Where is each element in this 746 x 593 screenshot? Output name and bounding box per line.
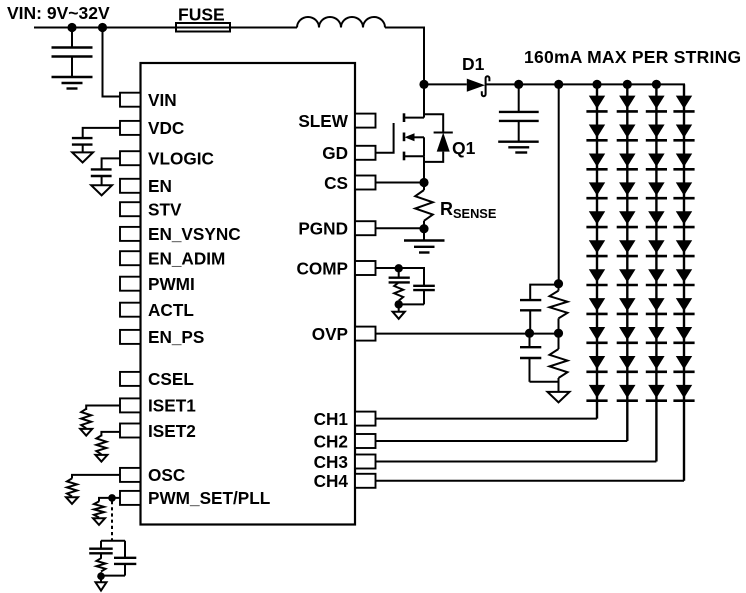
svg-text:CH1: CH1 bbox=[314, 409, 349, 429]
node OVP divider top bbox=[554, 279, 563, 288]
svg-text:ACTL: ACTL bbox=[148, 300, 194, 320]
pin STV (left) bbox=[120, 200, 182, 220]
svg-text:D1: D1 bbox=[462, 54, 485, 74]
svg-text:VIN: 9V~32V: VIN: 9V~32V bbox=[7, 3, 110, 23]
pin PGND (right) bbox=[298, 219, 375, 239]
wire CH1 return bbox=[376, 418, 598, 420]
node PLL ground junction bbox=[97, 572, 105, 580]
net label 160mA MAX PER STRING bbox=[524, 47, 741, 67]
fuse FUSE bbox=[176, 4, 230, 31]
pin COMP (right) bbox=[296, 258, 375, 278]
capacitor PLL parallel bbox=[114, 541, 136, 576]
capacitor input bulk bbox=[52, 28, 93, 77]
pin CH3 (right) bbox=[314, 452, 376, 472]
wire CS bbox=[376, 182, 425, 184]
svg-text:STV: STV bbox=[148, 200, 182, 220]
LED string 4 (CH4) bbox=[673, 84, 694, 480]
wire dashed PLL option bbox=[111, 501, 113, 541]
net label VIN: 9V~32V bbox=[7, 3, 110, 23]
capacitor VLOGIC bypass with wire bbox=[91, 158, 120, 185]
svg-text:ISET1: ISET1 bbox=[148, 396, 196, 416]
ground input (earth) bbox=[52, 77, 93, 89]
wire inductor to diode node bbox=[385, 28, 424, 81]
ground ISET2 (small triangle) bbox=[95, 455, 107, 462]
wire PLL filter bottom bbox=[101, 575, 125, 577]
resistor PLL series bbox=[97, 558, 106, 576]
svg-text:RSENSE: RSENSE bbox=[440, 199, 497, 221]
pin ACTL (left) bbox=[120, 300, 194, 320]
svg-text:VLOGIC: VLOGIC bbox=[148, 149, 214, 169]
resistor RSENSE bbox=[415, 183, 497, 229]
svg-text:Q1: Q1 bbox=[452, 138, 476, 158]
transistor Q1 N-MOSFET bbox=[404, 84, 476, 182]
pin VLOGIC (left) bbox=[120, 149, 214, 169]
pin EN_PS (left) bbox=[120, 327, 204, 347]
svg-text:OVP: OVP bbox=[312, 324, 348, 344]
svg-text:OSC: OSC bbox=[148, 465, 185, 485]
pin ISET2 (left) bbox=[120, 421, 196, 441]
node input junction 1 bbox=[67, 23, 76, 32]
node COMP junction bbox=[395, 264, 403, 272]
ground PWM_SET (small triangle) bbox=[93, 518, 105, 525]
ground COMP (triangle) bbox=[393, 304, 405, 318]
pin PWMI (left) bbox=[120, 274, 195, 294]
wire OVP pin bbox=[376, 333, 559, 335]
node PWM_SET junction bbox=[108, 494, 116, 502]
resistor OVP lower bbox=[550, 333, 568, 392]
wire PWM_SET/PLL bbox=[99, 498, 120, 502]
svg-text:SLEW: SLEW bbox=[298, 111, 348, 131]
pin EN_ADIM (left) bbox=[120, 249, 225, 269]
capacitor OVP lower bbox=[520, 333, 559, 382]
svg-text:EN: EN bbox=[148, 176, 172, 196]
pin CSEL (left) bbox=[120, 369, 194, 389]
ground PGND (earth) bbox=[404, 229, 445, 253]
capacitor output bulk bbox=[499, 84, 539, 141]
wire input rail bbox=[34, 27, 297, 29]
node boost switch junction bbox=[419, 80, 428, 89]
wire VIN pin feed bbox=[103, 28, 121, 97]
wire PGND bbox=[376, 227, 425, 229]
pin SLEW (right) bbox=[298, 111, 375, 131]
wire COMP pin bbox=[376, 268, 425, 285]
resistor ISET2 with wire bbox=[96, 432, 120, 454]
node PGND junction bbox=[419, 224, 428, 233]
svg-text:CH4: CH4 bbox=[314, 471, 349, 491]
ground PLL (small triangle) bbox=[96, 576, 107, 590]
svg-text:GD: GD bbox=[322, 143, 348, 163]
ground VDC (signal triangle) bbox=[72, 152, 93, 162]
pin EN_VSYNC (left) bbox=[120, 224, 241, 244]
ground OSC (small triangle) bbox=[66, 497, 78, 504]
capacitor VDC bypass with wire bbox=[72, 128, 120, 152]
pin ISET1 (left) bbox=[120, 396, 196, 416]
svg-text:COMP: COMP bbox=[296, 258, 348, 278]
node COMP ground junction bbox=[395, 300, 403, 308]
LED string 2 (CH2) bbox=[617, 84, 638, 441]
svg-text:PGND: PGND bbox=[298, 219, 348, 239]
node input junction 2 bbox=[98, 23, 107, 32]
pin CS (right) bbox=[324, 173, 375, 193]
diode D1 schottky bbox=[462, 54, 489, 96]
node string 3 junction bbox=[652, 80, 661, 89]
resistor ISET1 with wire bbox=[81, 406, 120, 429]
node output cap junction bbox=[514, 80, 523, 89]
svg-text:EN_ADIM: EN_ADIM bbox=[148, 249, 225, 269]
resistor OSC with wire bbox=[67, 475, 120, 497]
wire boost node to D1 bbox=[424, 83, 467, 85]
svg-text:PWMI: PWMI bbox=[148, 274, 195, 294]
wire CH4 return bbox=[376, 480, 685, 482]
node OVP mid left bbox=[525, 329, 534, 338]
capacitor COMP series bbox=[389, 268, 410, 282]
svg-text:ISET2: ISET2 bbox=[148, 421, 196, 441]
svg-text:160mA MAX PER STRING: 160mA MAX PER STRING bbox=[524, 47, 741, 67]
capacitor PLL series bbox=[89, 541, 113, 559]
LED string 3 (CH3) bbox=[646, 84, 667, 461]
pin VDC (left) bbox=[120, 118, 184, 138]
svg-text:VIN: VIN bbox=[148, 90, 177, 110]
node CS junction bbox=[419, 178, 428, 187]
LED string 1 (CH1) bbox=[586, 84, 607, 418]
pin CH2 (right) bbox=[314, 431, 376, 451]
pin VIN (left) bbox=[120, 90, 177, 110]
node OVP top junction bbox=[554, 80, 563, 89]
pin OVP (right) bbox=[312, 324, 376, 344]
resistor COMP series bbox=[394, 282, 403, 304]
wire output rail bbox=[486, 84, 684, 95]
pin CH1 (right) bbox=[314, 409, 376, 429]
wire rail to OVP divider bbox=[558, 84, 560, 283]
pin CH4 (right) bbox=[314, 471, 376, 491]
ground VLOGIC (signal triangle) bbox=[91, 185, 112, 195]
resistor PWM_SET bbox=[94, 501, 104, 517]
pin GD (right) bbox=[322, 143, 375, 163]
ground OVP (triangle) bbox=[548, 392, 570, 403]
capacitor COMP parallel bbox=[399, 286, 435, 305]
IC U1 LED driver bbox=[141, 63, 356, 525]
svg-text:EN_PS: EN_PS bbox=[148, 327, 204, 347]
wire PLL filter top bbox=[101, 540, 125, 542]
svg-text:EN_VSYNC: EN_VSYNC bbox=[148, 224, 241, 244]
inductor L1 bbox=[297, 17, 385, 28]
pin OSC (left) bbox=[120, 465, 185, 485]
pin PWM_SET/PLL (left) bbox=[120, 488, 270, 508]
svg-text:CH3: CH3 bbox=[314, 452, 348, 472]
wire CH2 return bbox=[376, 440, 628, 442]
svg-text:CH2: CH2 bbox=[314, 431, 348, 451]
wire CH3 return bbox=[376, 461, 657, 463]
svg-text:PWM_SET/PLL: PWM_SET/PLL bbox=[148, 488, 270, 508]
svg-text:CSEL: CSEL bbox=[148, 369, 194, 389]
wire GD to gate bbox=[376, 123, 394, 153]
svg-text:CS: CS bbox=[324, 173, 348, 193]
node string 2 junction bbox=[623, 80, 632, 89]
node OVP mid right bbox=[554, 329, 563, 338]
ground output (earth) bbox=[498, 142, 539, 153]
svg-text:FUSE: FUSE bbox=[178, 4, 225, 24]
ground ISET1 (small triangle) bbox=[80, 429, 92, 436]
resistor OVP upper bbox=[550, 284, 568, 334]
pin EN (left) bbox=[120, 176, 172, 196]
svg-text:VDC: VDC bbox=[148, 118, 184, 138]
node string 1 junction bbox=[592, 80, 601, 89]
capacitor OVP upper with wires bbox=[520, 285, 559, 334]
